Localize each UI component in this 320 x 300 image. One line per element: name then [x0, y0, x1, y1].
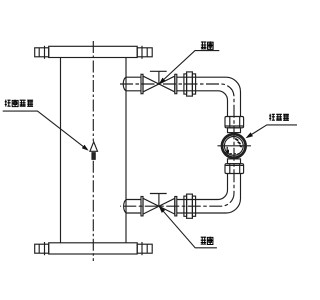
main pipe centerline — [92, 41, 94, 141]
ball valve V2 left flange — [141, 197, 143, 216]
ball valve V1 body — [143, 76, 175, 92]
label 球阀 lower text — [201, 237, 213, 245]
sight glass crosshair — [218, 145, 251, 147]
top flange right hub — [137, 48, 152, 57]
label 流向标识 text — [5, 100, 33, 107]
bottom flange bar — [49, 243, 138, 254]
top flange left hub — [35, 48, 49, 57]
flow direction marker — [90, 142, 98, 152]
ball valve V1 left flange — [141, 74, 143, 93]
sight glass internal vanes — [235, 139, 242, 147]
sight glass top band — [228, 128, 241, 133]
sight glass liquid level dashes — [226, 153, 245, 155]
sight glass top nut — [225, 117, 244, 128]
lower bypass nozzle — [124, 200, 141, 214]
pipe wire valve to union (upper) — [177, 77, 196, 91]
bottom flange left hub — [35, 244, 49, 253]
sight glass bottom nut — [225, 164, 244, 174]
label 流向标识 leader arrowhead — [82, 145, 89, 151]
label 球阀 upper leader — [159, 51, 219, 84]
label 球阀 lower leader — [159, 206, 217, 248]
label 视流器 leader — [247, 125, 297, 137]
pipe wire nut to lower elbow (right) — [196, 174, 241, 214]
label 视流器 arrowhead — [246, 132, 254, 138]
ball valve V2 stem — [150, 194, 167, 207]
sight glass bottom band — [228, 159, 241, 164]
label 视流器 text — [269, 114, 289, 121]
ball valve V1 stem — [150, 71, 167, 84]
sight glass float — [226, 147, 228, 153]
bottom flange right hub — [137, 244, 152, 253]
label 球阀 upper text — [201, 41, 213, 49]
ball valve V2 body — [143, 198, 175, 214]
upper bypass nozzle — [123, 77, 141, 91]
top flange bar — [49, 46, 138, 57]
label 流向标识 leader — [3, 111, 87, 149]
pipe wire union to elbow (upper) — [196, 77, 241, 116]
union U1 — [184, 74, 187, 94]
sight glass body SG1 — [222, 134, 246, 158]
ball valve V2 right flange — [175, 197, 177, 216]
pipe wire valve to union (lower) — [177, 200, 196, 214]
label 球阀 lower arrowhead — [159, 206, 165, 213]
pipe right wall — [125, 58, 127, 244]
ball valve V1 right flange — [175, 74, 177, 93]
upper bypass centerline — [120, 84, 234, 206]
union U2 — [184, 196, 187, 216]
pipe left wall — [60, 58, 62, 244]
label 球阀 upper arrowhead — [159, 78, 166, 84]
